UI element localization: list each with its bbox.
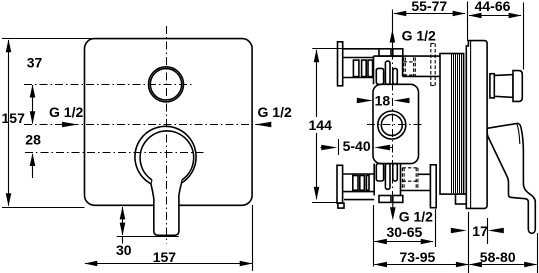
svg-text:28: 28: [25, 131, 41, 147]
svg-text:G 1/2: G 1/2: [258, 104, 292, 120]
svg-text:44-66: 44-66: [475, 0, 511, 14]
svg-text:73-95: 73-95: [400, 249, 436, 265]
svg-text:157: 157: [153, 249, 177, 265]
svg-text:18: 18: [375, 92, 391, 108]
svg-text:G 1/2: G 1/2: [399, 209, 433, 225]
svg-text:30: 30: [116, 242, 132, 258]
svg-text:55-77: 55-77: [411, 0, 447, 14]
svg-text:17: 17: [472, 223, 488, 239]
svg-text:5-40: 5-40: [343, 138, 371, 154]
svg-text:G 1/2: G 1/2: [402, 28, 436, 44]
svg-text:144: 144: [309, 117, 333, 133]
svg-text:157: 157: [2, 110, 26, 126]
svg-text:30-65: 30-65: [387, 224, 423, 240]
svg-text:37: 37: [27, 55, 43, 71]
svg-text:58-80: 58-80: [480, 249, 516, 265]
svg-text:G 1/2: G 1/2: [49, 104, 83, 120]
